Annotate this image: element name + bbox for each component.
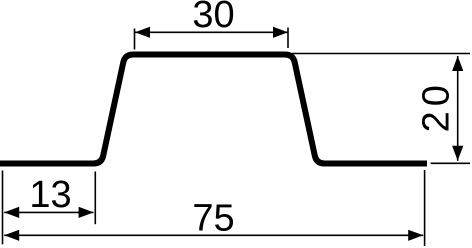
dimension 75: right arrowhead [408, 230, 423, 241]
dimension 20: dimension line [457, 56, 459, 161]
dimension 13: left arrowhead [4, 207, 19, 218]
dimension 30: left extension line [134, 29, 136, 50]
dimension 75: right extension line [424, 170, 426, 246]
dimension 13: dimension line [4, 211, 93, 213]
dimension 13: left extension line (shared with 75) [2, 171, 4, 245]
dimension 20: top arrowhead [452, 56, 463, 71]
dimension 13: right arrowhead [79, 207, 94, 218]
dimension 75: dimension line [4, 234, 423, 236]
svg-text:13: 13 [29, 174, 71, 216]
dimension 20: bottom arrowhead [452, 146, 463, 161]
trapezoidal sheet profile outline [0, 55, 427, 164]
dimension 30: right arrowhead [273, 27, 288, 38]
dimension 20: top extension line [292, 53, 470, 55]
svg-text:75: 75 [192, 198, 234, 240]
dimension 30: right extension line [287, 28, 289, 49]
dimension 30: dimension line [135, 31, 288, 33]
dimension 13: right extension line [94, 172, 96, 225]
svg-text:20: 20 [416, 80, 458, 132]
dimension 75: left arrowhead [4, 230, 19, 241]
dimension 30: left arrowhead [135, 27, 150, 38]
svg-text:30: 30 [192, 0, 234, 36]
dimension 20: bottom extension line [431, 162, 471, 164]
